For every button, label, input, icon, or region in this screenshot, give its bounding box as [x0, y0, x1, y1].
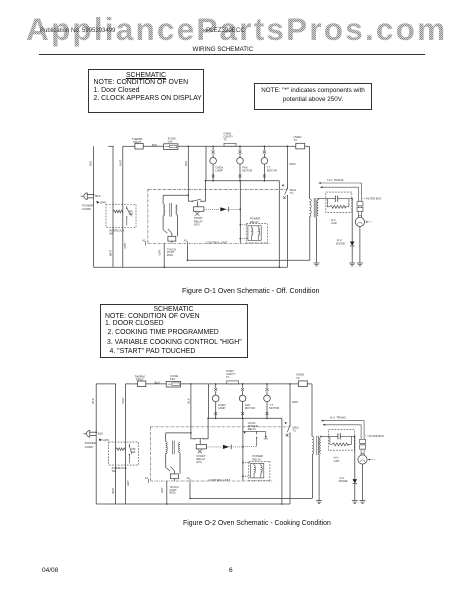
svg-text:BLK: BLK: [184, 161, 188, 166]
node A2 tick: [186, 241, 188, 245]
svg-text:TC: TC: [290, 191, 294, 195]
LVT core: [169, 203, 171, 217]
interlock switch dashed box: [109, 442, 139, 465]
LVT secondary: [179, 442, 180, 452]
LV transformer T1 primary: [163, 204, 165, 216]
wire top line L1: [125, 383, 137, 385]
coil box (buzzer): [171, 474, 179, 479]
wire cap to diode rail: [354, 436, 356, 479]
wire branch at x=240.0: [242, 384, 244, 388]
wire LVT primary bottom lead: [165, 453, 167, 467]
wire rail D upper: [286, 146, 288, 188]
oven TC box on top wire: [298, 381, 307, 387]
switch arrow mark: [282, 185, 284, 187]
wire lamp group left edge: [205, 146, 207, 180]
ground G2: [354, 496, 356, 501]
cutout X mark lower: [212, 175, 215, 178]
relay contact below LVT: [163, 230, 167, 234]
wire branch at x=264.4: [266, 384, 268, 388]
HV capacitor dashed box: [326, 192, 352, 213]
HV transformer primary: [309, 199, 311, 217]
wire diode to ground: [354, 484, 356, 497]
note box 1: off condition: [88, 69, 204, 114]
cutout X mark lower: [239, 175, 242, 178]
svg-text:SW.: SW.: [129, 213, 134, 216]
schematic 1: oven off condition: [81, 132, 382, 268]
monitor resistor zigzag: [116, 448, 126, 451]
wire rail C: [122, 146, 124, 267]
magnetron MG1: [355, 217, 364, 226]
wire A1 drop to bottom: [163, 243, 165, 267]
header rule: [39, 53, 425, 56]
wire mid-bottom return: [190, 497, 312, 499]
svg-text:BLK: BLK: [95, 194, 101, 198]
wire diode row extension: [243, 445, 257, 447]
oven lamp OL: [210, 158, 217, 165]
oven lamp OL: [212, 395, 219, 402]
svg-text:RELAY: RELAY: [248, 427, 257, 431]
wire door-sense right rail: [205, 181, 207, 202]
ground G3: [362, 496, 364, 501]
wire cook relay drop: [265, 432, 267, 438]
wire HVT primary return: [311, 454, 313, 498]
wire branch lower: [212, 164, 214, 181]
wire relay branch vertical: [256, 432, 258, 435]
wire magnetron cathode lead: [359, 227, 361, 259]
wire cap lead: [321, 435, 338, 437]
wire plug neutral stub: [87, 197, 93, 199]
wire mid-bottom return: [187, 259, 309, 261]
svg-text:WHT: WHT: [121, 397, 125, 404]
interlock monitor block on top wire: [227, 381, 239, 384]
svg-text:CONTROL UNIT: CONTROL UNIT: [206, 241, 228, 245]
wire coil box bottom stub: [171, 241, 173, 243]
relay coil RY-1: [254, 465, 256, 473]
svg-text:BLK: BLK: [152, 143, 158, 147]
wire HV feed drop inner: [360, 425, 362, 440]
footer page 6: [229, 567, 233, 574]
interlock monitor block on top wire: [224, 143, 236, 146]
wire antenna leads: [358, 212, 360, 218]
node A2 tick: [189, 479, 191, 483]
wire branch at x=213.1: [212, 146, 214, 150]
wire rail D upper: [289, 384, 291, 426]
svg-text:BLK: BLK: [89, 161, 93, 166]
svg-text:BLK: BLK: [91, 398, 95, 403]
wire HVT primary feed: [308, 146, 310, 199]
wire rail B: [112, 146, 114, 267]
svg-text:15A: 15A: [170, 377, 175, 381]
wire rail B: [115, 384, 117, 504]
svg-text:DIODE: DIODE: [336, 241, 345, 245]
wire door-sense right rail: [207, 418, 209, 439]
wire branch lower: [215, 402, 217, 419]
svg-text:A2: A2: [186, 476, 190, 480]
coil box (buzzer): [168, 236, 176, 241]
svg-text:FILTER BOX: FILTER BOX: [369, 434, 385, 438]
wire HVT secondary top lead: [320, 436, 322, 437]
wire HV feed drop outer: [361, 183, 363, 202]
HV feed wire upper with arrow: [321, 182, 362, 184]
svg-text:MOTOR: MOTOR: [242, 169, 252, 173]
magnetron antenna dome: [358, 215, 361, 217]
svg-text:(RY): (RY): [194, 223, 200, 227]
feedthrough capacitor block upper: [357, 202, 363, 206]
svg-text:SW.: SW.: [131, 451, 136, 454]
wire top segment: [143, 145, 163, 147]
HV capacitor C1 plates: [334, 196, 336, 202]
LVT secondary: [176, 205, 177, 215]
svg-text:WHT: WHT: [111, 487, 115, 493]
note box 3: cooking condition: [100, 304, 248, 358]
svg-text:BLK: BLK: [187, 398, 191, 403]
wire LVT primary top lead: [165, 433, 167, 442]
svg-text:DIODE: DIODE: [339, 479, 348, 483]
wire lamp group return drop: [278, 181, 280, 268]
svg-text:GRN: GRN: [100, 201, 106, 205]
wire dotted to diode: [204, 208, 220, 210]
power relay dashed enclosure: [249, 461, 270, 480]
relay coil RY-2: [261, 465, 263, 473]
wire branch lower: [266, 402, 268, 419]
magnetron TC switch: [289, 425, 290, 426]
control unit boundary top (dash-dot): [148, 188, 288, 190]
svg-text:A1: A1: [142, 239, 146, 243]
X mark under relay box: [195, 212, 199, 216]
wire dotted to diode: [207, 446, 223, 448]
control unit boundary bottom: [151, 480, 274, 482]
svg-text:CONTROL UNIT: CONTROL UNIT: [209, 478, 231, 482]
wire relay rail to relay unit: [243, 461, 251, 463]
model number: [206, 27, 245, 34]
wire rail A (left, from plug down to bottom): [93, 146, 95, 267]
svg-text:GRN: GRN: [289, 162, 295, 166]
svg-text:MOTOR: MOTOR: [267, 169, 277, 173]
junction top wire / door-sense rail: [188, 146, 190, 148]
thermal cutout X mark: [214, 388, 217, 391]
HVT secondary: [317, 200, 318, 216]
wire HVT secondary ground lead: [316, 217, 318, 259]
svg-text:TC: TC: [296, 376, 300, 380]
control unit boundary left: [150, 427, 152, 481]
note box 2: 250V warning: [254, 83, 372, 110]
wire top right segment: [290, 383, 298, 385]
schematic 2: oven cooking condition: [83, 369, 384, 505]
ground G1: [316, 259, 318, 264]
wire relay rail to relay unit: [240, 224, 248, 226]
svg-text:TC: TC: [294, 138, 298, 142]
svg-text:(RY): (RY): [196, 460, 202, 464]
svg-text:LAMP: LAMP: [218, 406, 226, 410]
contact tick: [265, 436, 267, 438]
switch arrow mark: [284, 422, 286, 424]
wire lamp group left edge: [208, 384, 210, 418]
thermal cutout X mark: [241, 388, 244, 391]
wire lamp group return drop: [281, 418, 283, 504]
power cord plug P2: [86, 431, 89, 438]
svg-text:TC: TC: [292, 429, 296, 433]
svg-text:H.V. TRANS: H.V. TRANS: [330, 415, 346, 419]
wire lamp group top: [206, 145, 287, 147]
HVT core: [316, 436, 318, 455]
ground arrow GRN at plug: [99, 438, 102, 441]
wire bottom neutral: [96, 503, 290, 505]
relay coil RY-1: [251, 228, 253, 236]
title WIRING SCHEMATIC: [193, 46, 254, 53]
svg-text:GRY: GRY: [126, 480, 130, 486]
wire relay rail (from lamp group down): [242, 418, 244, 480]
wire plug neutral stub: [90, 435, 96, 437]
monitor resistor zigzag: [113, 210, 123, 213]
door sensing switch: [191, 438, 195, 440]
feedthrough capacitor block upper: [360, 439, 366, 443]
wire relay stub: [197, 201, 199, 207]
svg-text:FILTER BOX: FILTER BOX: [366, 197, 382, 201]
svg-text:MOD.: MOD.: [167, 253, 174, 257]
HVT core: [313, 198, 315, 217]
magnetron right arrow: [366, 221, 373, 223]
wire branch lower: [242, 402, 244, 419]
wire rail D lower: [289, 433, 291, 504]
wire top segment: [146, 383, 166, 385]
start relay contact box RY: [194, 207, 204, 212]
wire plug line (BLK) to rail: [90, 431, 96, 433]
cutout X mark lower: [214, 412, 217, 415]
watermark AppliancePartsPros.com: [26, 11, 447, 48]
control unit boundary left: [147, 189, 149, 243]
magnetron antenna dome: [361, 453, 364, 455]
caption figure O-2: [183, 520, 331, 527]
magnetron TC switch: [287, 188, 288, 189]
wire top segment to lamp group: [178, 145, 206, 147]
junction plug-rail A: [95, 431, 97, 433]
svg-text:GRY: GRY: [160, 487, 164, 493]
svg-text:RELAY: RELAY: [250, 220, 259, 224]
fan motor FM: [237, 158, 244, 165]
svg-text:A1: A1: [145, 476, 149, 480]
wire HVT secondary top lead: [317, 199, 319, 200]
control unit boundary bottom: [148, 242, 271, 244]
wire rail B top stub: [96, 383, 116, 385]
publication number: [40, 28, 115, 34]
node A1 tick: [147, 479, 149, 483]
svg-text:BLK: BLK: [155, 380, 161, 384]
wire plug line (BLK) to rail: [87, 194, 93, 196]
svg-text:CORD: CORD: [85, 445, 95, 449]
caption figure O-1: [182, 287, 319, 295]
svg-text:SW.: SW.: [112, 469, 117, 473]
label FILTER BOX with arrow: [363, 197, 366, 199]
svg-text:MOTOR: MOTOR: [269, 406, 279, 410]
wire bottom neutral: [94, 266, 288, 268]
bleed resistor R2: [329, 436, 331, 444]
wire LVT primary bottom lead: [162, 216, 164, 230]
HV capacitor dashed box: [329, 430, 355, 451]
wire lamp group bottom: [206, 180, 279, 182]
HVT secondary: [319, 437, 320, 453]
wire A2 drop: [186, 246, 188, 261]
cutout X mark lower: [241, 412, 244, 415]
wire top right segment: [287, 145, 295, 147]
HV feed wire lower with arrow: [325, 424, 361, 426]
turntable motor TTM: [261, 158, 268, 165]
wire LVT secondary lead: [176, 215, 178, 236]
wire diode to relay rail: [227, 208, 241, 210]
primary interlock switch: [128, 444, 130, 446]
diode D2: [223, 445, 229, 449]
wire cap lead right: [338, 198, 353, 200]
svg-text:SW.: SW.: [109, 232, 114, 236]
junction top wire / door-sense rail: [190, 383, 192, 385]
magnetron MG2: [358, 455, 367, 464]
ground G3: [359, 259, 361, 264]
ground G2: [351, 259, 353, 264]
bleed resistor R1: [326, 199, 328, 207]
svg-text:LAMP: LAMP: [215, 169, 223, 173]
cutout X mark lower: [263, 175, 266, 178]
wire cap lead right: [340, 435, 355, 437]
door sensing switch: [188, 200, 192, 202]
wire HVT primary return: [309, 217, 311, 261]
wire branch at x=240.0: [239, 146, 241, 150]
LVT core: [171, 441, 173, 455]
svg-text:MOTOR: MOTOR: [245, 406, 255, 410]
control unit boundary top (dash-dot): [151, 426, 291, 428]
svg-text:H.V. TRANS: H.V. TRANS: [328, 178, 344, 182]
wire LVT secondary lead: [179, 453, 181, 474]
wire top line L1: [123, 145, 135, 147]
svg-text:GRY: GRY: [123, 243, 127, 249]
wire antenna leads: [360, 449, 362, 455]
fuse F1: [164, 144, 178, 150]
X mark at switch: [283, 196, 286, 199]
junction plug-rail A: [93, 194, 95, 196]
thermal cutout X mark: [238, 150, 241, 153]
wire branch lower: [239, 164, 241, 181]
footer date 04/08: [42, 567, 58, 574]
wire door-sense left rail: [190, 384, 192, 439]
wire coil box bottom stub: [174, 479, 176, 481]
power cord plug P1: [84, 193, 87, 200]
wire HVT primary feed: [311, 384, 313, 437]
HV transformer primary: [312, 436, 314, 454]
ground arrow GRN at plug: [96, 201, 99, 204]
wire lamp group top: [209, 383, 290, 385]
wire relay rail (from lamp group down): [239, 181, 241, 243]
wire cap to diode rail: [351, 199, 353, 242]
wire top segment to lamp group: [181, 383, 209, 385]
svg-text:A2: A2: [184, 239, 188, 243]
wire HV feed drop inner: [358, 187, 360, 202]
svg-text:TC: TC: [226, 375, 230, 379]
wire branch lower: [263, 164, 265, 181]
wire rail A (left, from plug down to bottom): [95, 384, 97, 504]
wire lamp group bottom: [209, 417, 282, 419]
LV transformer T2 primary: [166, 442, 168, 454]
svg-text:MOD.: MOD.: [169, 491, 176, 495]
wire HVT secondary ground lead: [318, 454, 320, 496]
svg-text:CAP.: CAP.: [334, 459, 340, 463]
diode D1: [220, 207, 226, 211]
HV feed wire lower with arrow: [323, 186, 359, 188]
svg-text:GRN: GRN: [292, 400, 298, 404]
svg-text:15A: 15A: [167, 140, 172, 144]
svg-text:CAP.: CAP.: [331, 221, 337, 225]
svg-text:WHT: WHT: [109, 250, 113, 256]
turntable motor TTM: [264, 395, 271, 402]
HV diode: [350, 242, 355, 246]
wire rail C: [124, 384, 126, 504]
wire cook relay feed: [242, 433, 244, 435]
power relay dashed enclosure: [246, 224, 267, 243]
wire relay stub: [199, 439, 201, 445]
HV feed wire upper with arrow: [324, 420, 365, 422]
HV capacitor C2 plates: [337, 433, 339, 439]
node A1 tick: [145, 241, 147, 245]
label FILTER BOX with arrow: [365, 435, 368, 437]
svg-text:WHT: WHT: [118, 159, 122, 166]
thermal protector TP2: [138, 381, 146, 387]
wire rail B top stub: [108, 145, 113, 147]
svg-text:GRN: GRN: [102, 438, 108, 442]
fan motor FM: [239, 395, 246, 402]
oven TC box on top wire: [296, 143, 305, 149]
svg-text:PROT.: PROT.: [133, 140, 142, 144]
power relay inner box: [251, 463, 264, 478]
primary interlock switch: [126, 206, 128, 208]
wire diode to relay rail: [229, 446, 243, 448]
X mark at switch: [286, 434, 289, 437]
ground G1: [318, 496, 320, 501]
wire A1 drop to bottom: [166, 481, 168, 504]
svg-text:PROT.: PROT.: [136, 378, 145, 382]
X mark under relay box: [198, 449, 202, 453]
svg-text:BLK: BLK: [98, 431, 104, 435]
wire rail D lower: [286, 196, 288, 268]
svg-text:TC: TC: [223, 138, 227, 142]
wire cap lead: [318, 198, 335, 200]
wire magnetron cathode lead: [362, 464, 364, 496]
magnetron right arrow: [369, 459, 376, 461]
feedthrough capacitor block lower: [357, 207, 363, 211]
start relay contact box RY: [196, 444, 206, 449]
wire HV feed drop outer: [363, 421, 365, 440]
power relay inner box: [248, 226, 261, 241]
relay contact below LVT: [166, 467, 170, 471]
thermal cutout X mark: [212, 150, 215, 153]
wire branch at x=264.4: [263, 146, 265, 150]
feedthrough capacitor block lower: [360, 445, 366, 449]
fuse F2: [166, 381, 180, 387]
interlock switch dashed box: [106, 205, 136, 228]
wire diode to ground: [351, 246, 353, 259]
wire LVT primary top lead: [162, 195, 164, 204]
cutout X mark lower: [266, 412, 269, 415]
svg-text:RELAY: RELAY: [252, 457, 261, 461]
HV diode: [353, 479, 358, 483]
thermal cutout X mark: [263, 150, 266, 153]
thermal protector TP1: [135, 143, 143, 149]
wire door-sense left rail: [187, 146, 189, 201]
relay coil RY-2: [258, 228, 260, 236]
svg-text:CORD: CORD: [82, 207, 92, 211]
thermal cutout X mark: [265, 388, 268, 391]
wire branch at x=213.1: [215, 384, 217, 388]
wire A2 drop: [189, 483, 191, 498]
svg-text:GRY: GRY: [157, 250, 161, 256]
cook relay closed contact arrow: [244, 431, 247, 434]
